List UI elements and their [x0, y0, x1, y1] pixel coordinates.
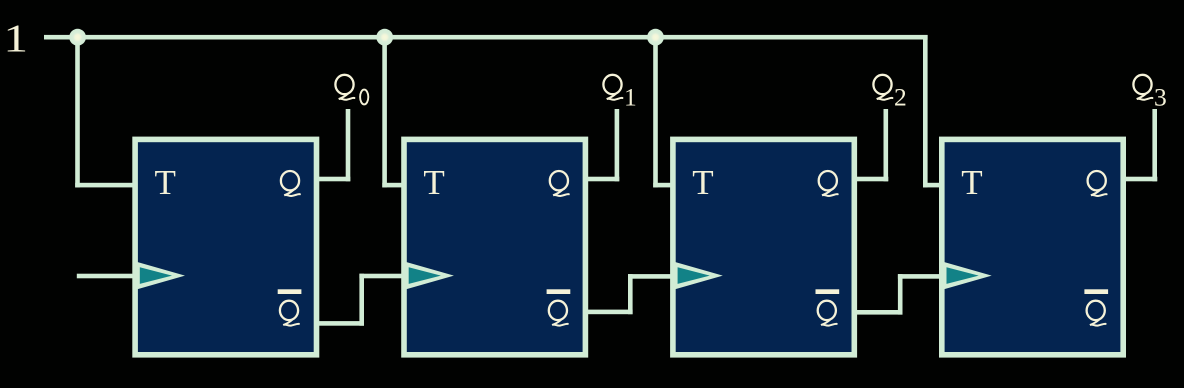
wire: Q0 riser: [346, 109, 351, 181]
wire: U3-U4 riser: [898, 274, 903, 315]
svg-text:3: 3: [1154, 82, 1167, 111]
svg-text:1: 1: [624, 82, 637, 111]
U4 clock triangle: [944, 262, 992, 289]
net label Q1: [603, 75, 636, 112]
net label Q3: [1133, 75, 1166, 112]
wire: drop from node A to FF1 T: [75, 35, 80, 187]
flip-flop U3 body: [673, 139, 854, 354]
wire: FF2 T input horizontal: [382, 183, 408, 188]
flip-flop U1 body: [135, 139, 316, 354]
svg-text:2: 2: [894, 82, 907, 111]
wire: top bus horizontal: [44, 35, 928, 40]
wire: Q3 riser: [1152, 109, 1157, 181]
wire: U1 Q output horizontal: [319, 177, 350, 182]
wire: drop from node C to FF3 T: [653, 35, 658, 187]
wire: Q2 riser: [884, 109, 889, 181]
svg-text:T: T: [155, 163, 176, 202]
wire: Q1 riser: [615, 109, 620, 181]
U2 pin label Qbar: [547, 289, 571, 325]
wire: U3 Qbar output horizontal: [857, 310, 903, 315]
node C junction dot: [647, 29, 664, 46]
wire: U2-U3 riser: [628, 274, 633, 314]
U1 pin label Qbar: [278, 289, 302, 325]
U1 pin label Q: [281, 171, 300, 196]
svg-text:1: 1: [3, 16, 28, 60]
U3 pin label Qbar: [816, 289, 840, 325]
wire: drop from node B to FF2 T: [382, 35, 387, 187]
wire: FF1 clock input stub: [77, 274, 138, 279]
wire: U3 Q output horizontal: [857, 177, 888, 182]
wire: U3 clock input horizontal: [628, 274, 676, 279]
svg-text:T: T: [423, 163, 444, 202]
wire: U1-U2 riser: [359, 274, 364, 326]
wire: U4 Q output horizontal: [1126, 177, 1157, 182]
wire: FF3 T input horizontal: [653, 183, 677, 188]
U1 clock triangle: [137, 262, 185, 289]
U2 clock triangle: [406, 262, 454, 289]
U3 clock triangle: [675, 262, 723, 289]
net label Q0: [335, 75, 368, 105]
U2 pin label Q: [550, 171, 569, 196]
wire: U2 Qbar output horizontal: [588, 310, 633, 315]
wire: U4 clock input horizontal: [898, 274, 945, 279]
net label Q2: [873, 75, 906, 112]
flip-flop U2 body: [404, 139, 585, 354]
svg-text:T: T: [692, 163, 713, 202]
U4 pin label Qbar: [1084, 289, 1108, 325]
wire: U1 Qbar output horizontal: [319, 321, 364, 326]
U4 pin label Q: [1088, 171, 1107, 196]
node B junction dot: [376, 29, 393, 46]
wire: U2 Q output horizontal: [588, 177, 619, 182]
flip-flop U4 body: [942, 139, 1123, 354]
U3 pin label Q: [819, 171, 838, 196]
node A junction dot: [69, 29, 86, 46]
wire: FF1 T input horizontal: [75, 183, 137, 188]
wire: FF4 T input horizontal: [923, 183, 946, 188]
svg-text:T: T: [961, 163, 982, 202]
wire: bus end drop to FF4 T: [923, 35, 928, 187]
wire: U2 clock input horizontal: [359, 274, 406, 279]
